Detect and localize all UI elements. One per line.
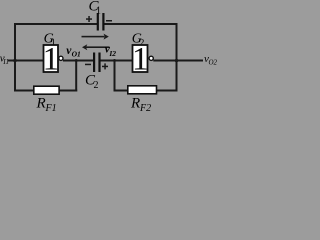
wire: RF1 riser from vO1 node down	[75, 60, 77, 92]
node vI2 riser junction dot	[113, 59, 116, 62]
gate G1 box	[44, 45, 59, 72]
node vO1 riser junction dot	[75, 59, 78, 62]
wire: bottom left segment to RF1	[14, 90, 34, 92]
wire: RF2 to right vertical	[157, 90, 178, 92]
minus sign of C2	[85, 64, 91, 65]
wire: left vertical (vI1 node to feedback loop)	[14, 23, 16, 92]
svg-text:F2: F2	[139, 103, 151, 114]
wire: right vertical (vO2 node loop)	[176, 23, 178, 92]
gate G2 box	[133, 45, 148, 72]
svg-text:2: 2	[94, 80, 99, 91]
node vI1 junction dot	[13, 59, 17, 63]
svg-text:R: R	[36, 96, 46, 112]
svg-text:1: 1	[132, 42, 149, 78]
capacitor C2 left plate	[93, 53, 95, 73]
wire: top horizontal right segment (C1 right plate to right vertical)	[105, 23, 178, 25]
arrow right (current direction top)	[82, 34, 109, 40]
wire: G1 output to C2 left plate	[63, 60, 93, 62]
arrow left (current direction bottom)	[82, 44, 110, 50]
wire: G2 output to vO2	[153, 60, 203, 62]
svg-text:1: 1	[96, 6, 101, 17]
wire: top horizontal left segment (to C1 left plate)	[14, 23, 97, 25]
wire: C2 right plate to G2 input	[101, 60, 133, 62]
capacitor C2 right plate	[98, 53, 100, 73]
svg-text:I1: I1	[2, 58, 9, 66]
resistor RF2 box	[128, 86, 157, 94]
wire: RF1 to riser	[59, 90, 77, 92]
svg-text:R: R	[130, 96, 140, 112]
wire: riser to RF2	[114, 90, 129, 92]
svg-text:O2: O2	[209, 59, 218, 67]
gate G1 output bubble	[59, 56, 63, 60]
gate G2 output bubble	[149, 56, 153, 60]
svg-text:I2: I2	[108, 49, 116, 58]
capacitor C1 right plate	[102, 13, 104, 31]
node vO2 junction dot	[175, 59, 179, 63]
wire: RF2 riser from vI2 node down	[114, 60, 116, 92]
svg-text:F1: F1	[45, 103, 57, 114]
wire: vI1 input stub	[8, 60, 43, 62]
minus sign of C1	[106, 20, 112, 22]
svg-text:1: 1	[43, 42, 60, 78]
capacitor C1 left plate	[97, 13, 99, 31]
svg-text:O1: O1	[72, 49, 81, 58]
plus sign of C1	[86, 16, 92, 22]
plus sign of C2	[102, 63, 108, 69]
resistor RF1 box	[34, 86, 59, 94]
